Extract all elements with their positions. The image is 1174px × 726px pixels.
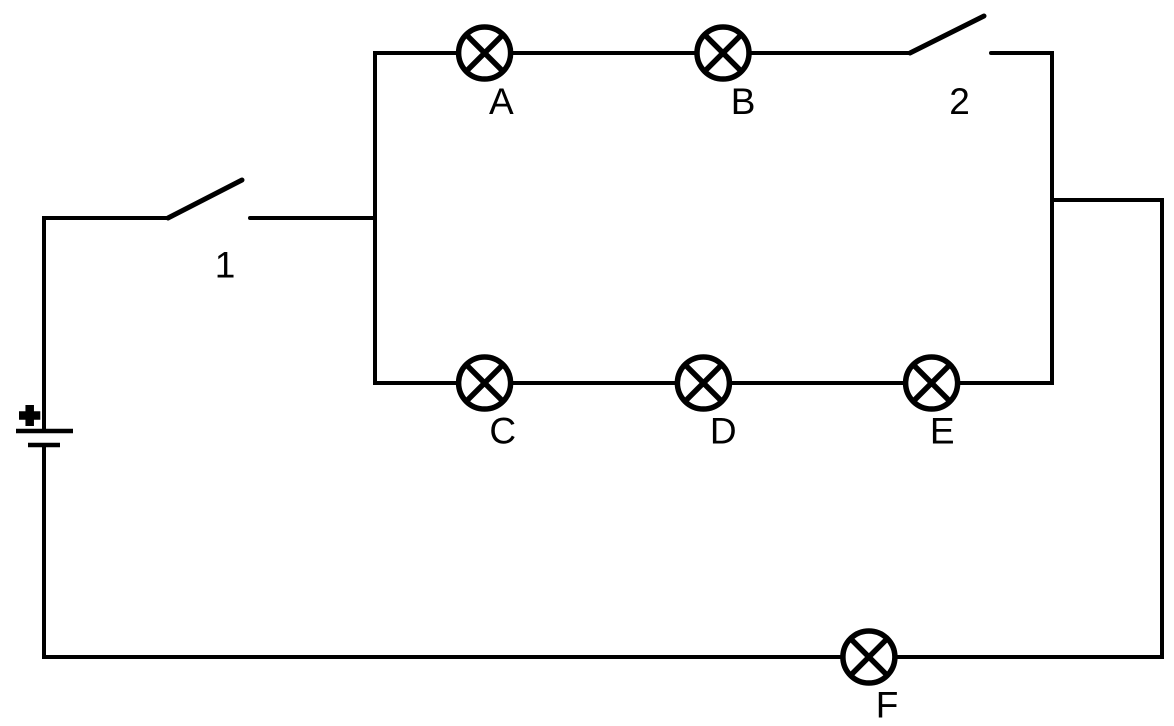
battery B1 bbox=[16, 405, 73, 445]
switch 1 bbox=[168, 180, 242, 218]
lamp E bbox=[906, 357, 958, 409]
lamp A bbox=[459, 27, 511, 79]
wire: switch 1 to left node of parallel block bbox=[250, 216, 375, 220]
svg-text:A: A bbox=[489, 81, 514, 122]
svg-text:E: E bbox=[930, 411, 955, 452]
svg-text:D: D bbox=[710, 411, 737, 452]
lamp C bbox=[459, 357, 511, 409]
wire: right link from parallel block to outer right vertical and down to bottom wire bbox=[44, 200, 1162, 657]
wire: parallel block rectangle (top branch, left vertical, bottom branch, right vertical) bbox=[375, 53, 1052, 383]
svg-text:F: F bbox=[876, 685, 899, 726]
svg-text:2: 2 bbox=[949, 81, 970, 122]
svg-text:C: C bbox=[489, 411, 516, 452]
switch 2 bbox=[910, 16, 1052, 53]
lamp F bbox=[843, 631, 895, 683]
wire: battery bottom to bottom wire bbox=[42, 447, 46, 659]
lamp B bbox=[697, 27, 749, 79]
wire: battery feed from battery top to switch 1 pivot bbox=[44, 218, 168, 429]
svg-text:1: 1 bbox=[215, 245, 236, 286]
lamp D bbox=[677, 357, 729, 409]
svg-text:B: B bbox=[731, 81, 756, 122]
